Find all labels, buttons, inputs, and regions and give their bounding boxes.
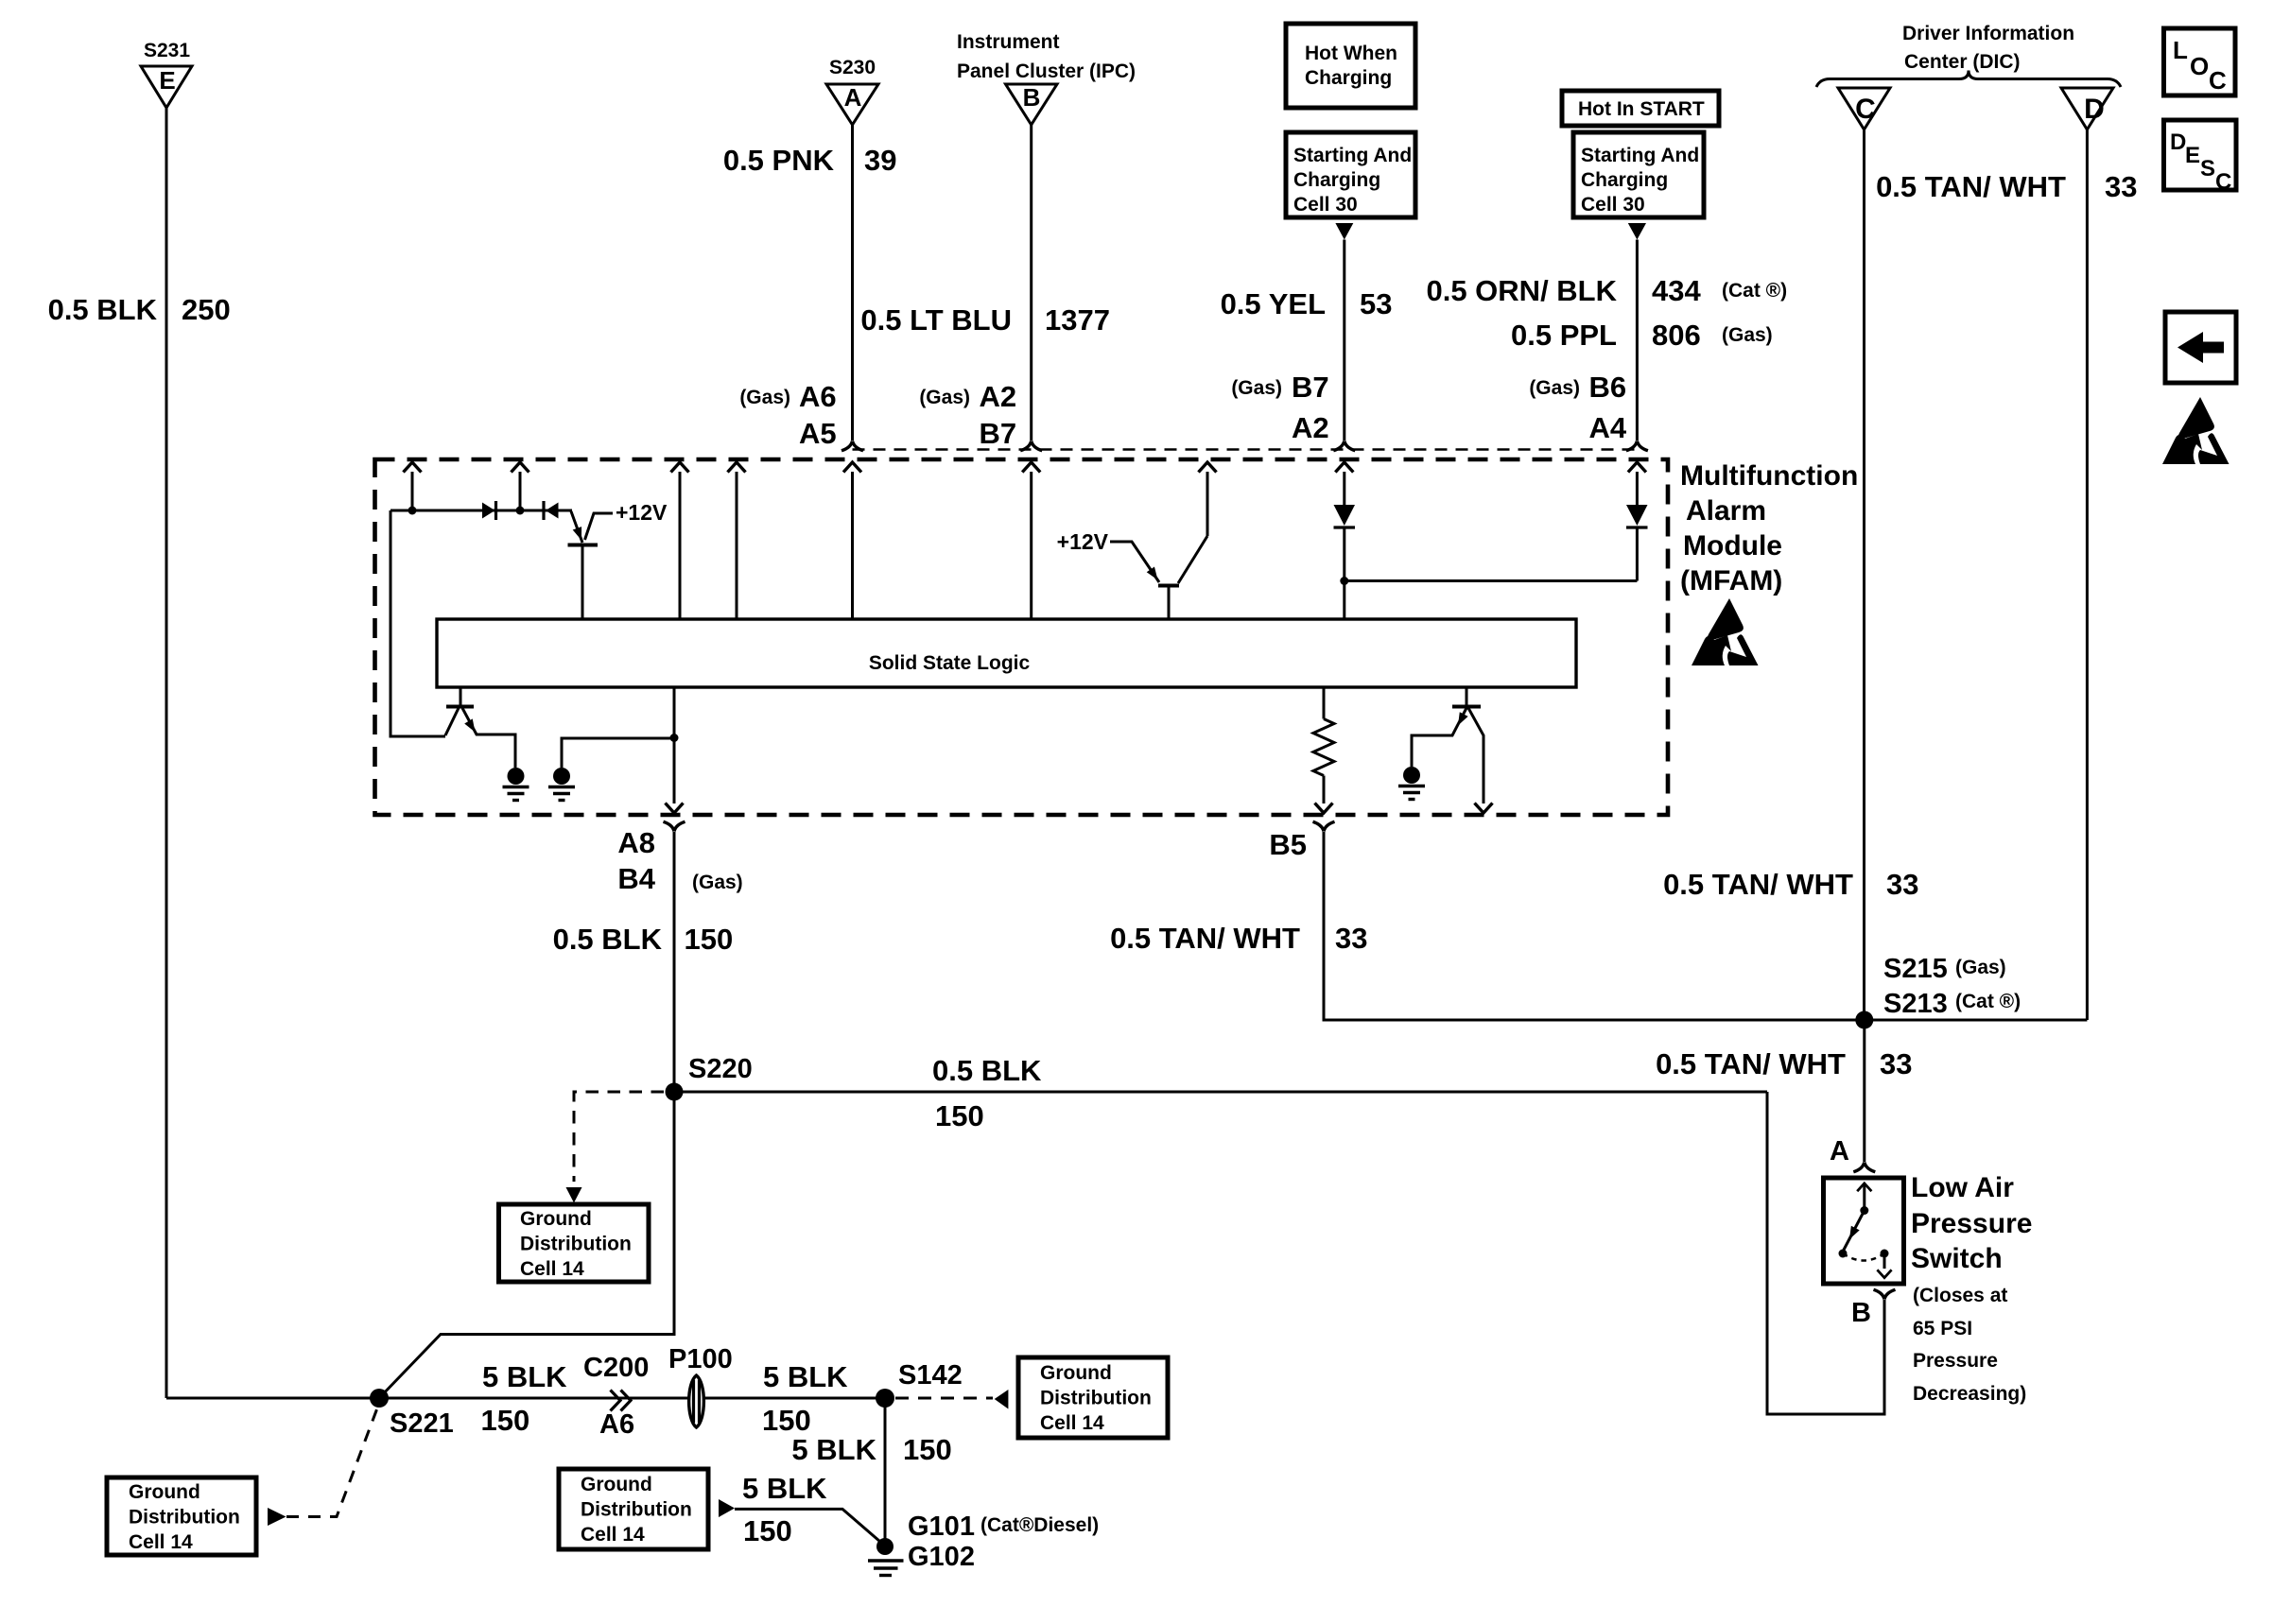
wire A8 output vertical <box>673 686 676 803</box>
wire from arrow x=550 to diode row <box>519 472 522 510</box>
svg-text:5 BLK: 5 BLK <box>763 1360 848 1393</box>
wire E vertical <box>165 108 168 1398</box>
svg-text:Cell 14: Cell 14 <box>520 1258 584 1280</box>
svg-text:0.5 ORN/ BLK: 0.5 ORN/ BLK <box>1426 274 1617 307</box>
svg-text:A: A <box>844 83 862 112</box>
svg-text:Cell 30: Cell 30 <box>1581 194 1645 216</box>
svg-text:S230: S230 <box>829 57 876 78</box>
svg-text:Cell 30: Cell 30 <box>1293 194 1358 216</box>
svg-text:B6: B6 <box>1589 371 1627 404</box>
crosslink wire <box>1345 579 1638 582</box>
svg-text:(Gas): (Gas) <box>1955 957 2006 978</box>
svg-text:0.5 TAN/ WHT: 0.5 TAN/ WHT <box>1110 922 1300 955</box>
box Starting And Charging Cell 30 <box>1286 132 1415 217</box>
svg-text:5 BLK: 5 BLK <box>742 1472 827 1505</box>
wire D TAN/WHT <box>2086 130 2089 1020</box>
svg-text:5 BLK: 5 BLK <box>791 1433 876 1466</box>
svg-text:Multifunction: Multifunction <box>1680 460 1858 492</box>
svg-text:Alarm: Alarm <box>1686 495 1766 527</box>
DESC icon <box>2164 120 2237 190</box>
pin chevron A <box>1853 1163 1875 1172</box>
ground (Q2 emitter) <box>503 768 529 801</box>
input arrow pin A4 <box>1628 462 1646 473</box>
svg-text:Distribution: Distribution <box>129 1507 240 1529</box>
svg-text:0.5 PPL: 0.5 PPL <box>1511 319 1617 352</box>
svg-text:Low Air: Low Air <box>1911 1172 2014 1203</box>
svg-text:0.5 YEL: 0.5 YEL <box>1221 287 1326 320</box>
svg-text:Switch: Switch <box>1911 1243 2003 1274</box>
svg-text:Panel Cluster (IPC): Panel Cluster (IPC) <box>957 60 1136 82</box>
svg-text:Hot In START: Hot In START <box>1578 98 1705 120</box>
svg-text:(Cat ®): (Cat ®) <box>1955 991 2021 1012</box>
input arrow pin A5 <box>843 462 861 473</box>
svg-text:Starting And: Starting And <box>1581 145 1699 166</box>
input arrow at top border x=1277 <box>1199 462 1217 473</box>
wire LT BLU <box>1030 125 1032 441</box>
svg-text:0.5 TAN/ WHT: 0.5 TAN/ WHT <box>1663 868 1853 901</box>
svg-text:A2: A2 <box>1292 411 1329 444</box>
wire TAN/WHT down <box>1324 832 2087 1020</box>
feed arrow <box>1628 223 1646 240</box>
svg-text:D: D <box>2084 94 2105 125</box>
wire 0.5 BLK 150 <box>673 832 676 1092</box>
wire D3 to logic <box>1343 527 1345 619</box>
diode D1 (points right) <box>482 503 495 519</box>
svg-text:C200: C200 <box>583 1353 649 1383</box>
svg-text:Module: Module <box>1683 530 1782 561</box>
svg-text:(Cat ®): (Cat ®) <box>1722 280 1787 302</box>
svg-text:(Cat®Diesel): (Cat®Diesel) <box>980 1514 1099 1536</box>
svg-text:Charging: Charging <box>1293 169 1380 191</box>
output arrow Q4 collector <box>1475 803 1493 814</box>
svg-text:B7: B7 <box>1292 371 1329 404</box>
svg-text:A6: A6 <box>799 380 837 413</box>
svg-text:(Gas): (Gas) <box>919 387 970 408</box>
wire C TAN/WHT <box>1863 130 1865 1020</box>
wire x=779 border to logic <box>736 472 738 619</box>
svg-text:B: B <box>1023 83 1041 112</box>
svg-text:A: A <box>1830 1136 1849 1166</box>
svg-text:Pressure: Pressure <box>1913 1350 1998 1372</box>
wire ORN/PPL <box>1636 240 1639 441</box>
wire YEL <box>1343 240 1345 441</box>
svg-text:A2: A2 <box>980 380 1017 413</box>
svg-text:Ground: Ground <box>581 1474 652 1495</box>
svg-text:O: O <box>2190 52 2209 80</box>
internal contacts <box>1857 1183 1871 1191</box>
ESD symbol top right <box>2162 397 2230 464</box>
node S221 <box>370 1389 389 1408</box>
svg-text:B4: B4 <box>617 862 655 895</box>
connector triangle B <box>1006 84 1058 125</box>
input arrow at top border x=436 <box>404 462 422 473</box>
wire x=719 border to logic <box>679 472 682 619</box>
connector triangle C <box>1838 88 1890 130</box>
svg-text:Charging: Charging <box>1581 169 1668 191</box>
svg-text:C: C <box>2209 66 2227 95</box>
svg-text:Starting And: Starting And <box>1293 145 1412 166</box>
junction node on A8 wire <box>670 734 679 742</box>
svg-text:(Gas): (Gas) <box>692 872 743 893</box>
svg-text:(Gas): (Gas) <box>1231 377 1282 399</box>
svg-text:A6: A6 <box>599 1409 634 1440</box>
wire 0.5 BLK to right <box>674 1091 1767 1094</box>
wire R1 to border <box>1323 776 1326 804</box>
output arrow pin A8 <box>666 803 684 814</box>
svg-text:33: 33 <box>1880 1047 1912 1080</box>
wire PNK <box>851 125 854 441</box>
connector chevron A2 <box>1333 441 1355 451</box>
svg-text:Cell 14: Cell 14 <box>581 1524 645 1546</box>
connector chevron A5 <box>842 441 863 451</box>
wire 5 BLK 150 to ground <box>735 1509 884 1545</box>
diode D2 (points left) <box>542 501 545 520</box>
stub arrow <box>719 1499 735 1517</box>
svg-text:806: 806 <box>1652 319 1701 352</box>
stub arrow <box>268 1508 286 1526</box>
svg-text:(Gas): (Gas) <box>739 387 790 408</box>
svg-text:33: 33 <box>1886 868 1918 901</box>
node S142 <box>876 1389 894 1408</box>
ESD symbol inside label area <box>1692 598 1759 665</box>
box Hot When Charging <box>1286 24 1415 108</box>
wire x=1277 border to Q3 <box>1206 472 1209 536</box>
connector dashed line (thin) <box>853 448 1638 451</box>
junction node A2/A4 link <box>1340 577 1348 585</box>
box Hot In START <box>1562 91 1719 126</box>
svg-text:150: 150 <box>762 1404 811 1437</box>
svg-text:Ground: Ground <box>129 1481 200 1503</box>
svg-text:150: 150 <box>685 923 734 956</box>
box Starting And Charging Cell 30 <box>1573 132 1704 217</box>
MFAM dashed border <box>375 459 1669 815</box>
svg-text:C: C <box>1855 94 1876 125</box>
wire E to S221 to S142 <box>166 1397 885 1400</box>
svg-text:33: 33 <box>1335 922 1367 955</box>
pin chevron A8 <box>664 821 685 831</box>
diode D4 at A4 wire <box>1626 505 1648 526</box>
svg-text:Hot When: Hot When <box>1305 43 1397 64</box>
wire to switch <box>1863 1020 1865 1162</box>
svg-text:G102: G102 <box>908 1542 975 1572</box>
junction node on diode row x=436 <box>408 507 417 515</box>
svg-text:33: 33 <box>2105 170 2137 203</box>
svg-text:B: B <box>1851 1298 1871 1328</box>
connector triangle E <box>141 66 192 108</box>
ground distribution box <box>1018 1357 1168 1438</box>
connector triangle A <box>826 84 878 125</box>
svg-text:+12V: +12V <box>1057 529 1109 554</box>
svg-text:Ground: Ground <box>1040 1362 1112 1384</box>
ground distribution box (middle) <box>559 1469 708 1549</box>
wire Q4 collector to border <box>1468 708 1484 803</box>
junction node <box>1855 1011 1873 1029</box>
svg-text:S142: S142 <box>898 1360 963 1391</box>
svg-text:150: 150 <box>935 1099 984 1132</box>
svg-text:(Gas): (Gas) <box>1529 377 1580 399</box>
svg-text:S220: S220 <box>688 1054 753 1084</box>
dashed link to S221 <box>286 1406 378 1517</box>
svg-text:150: 150 <box>903 1433 952 1466</box>
svg-text:434: 434 <box>1652 274 1701 307</box>
solid state logic box <box>437 619 1576 687</box>
svg-text:Cell 14: Cell 14 <box>129 1531 193 1553</box>
transistor Q2 lower left <box>460 686 462 706</box>
svg-text:0.5 TAN/ WHT: 0.5 TAN/ WHT <box>1876 170 2066 203</box>
svg-text:0.5 PNK: 0.5 PNK <box>723 144 835 177</box>
input arrow at top border x=719 <box>671 462 689 473</box>
diode D3 at A2 wire <box>1334 505 1356 526</box>
connector chevron A4 <box>1626 441 1648 451</box>
output arrow pin B5 <box>1315 803 1333 814</box>
dashed stub to ground distribution <box>574 1092 664 1182</box>
dashed stub to ground distribution <box>895 1397 993 1400</box>
svg-text:53: 53 <box>1360 287 1392 320</box>
svg-text:A4: A4 <box>1589 411 1627 444</box>
connector triangle D <box>2061 88 2113 130</box>
svg-text:(MFAM): (MFAM) <box>1680 565 1782 596</box>
svg-text:S: S <box>2200 156 2215 181</box>
svg-text:A5: A5 <box>799 417 837 450</box>
svg-text:Ground: Ground <box>520 1208 592 1230</box>
svg-text:0.5 BLK: 0.5 BLK <box>932 1054 1042 1087</box>
ground distribution box <box>499 1204 650 1282</box>
svg-text:0.5 BLK: 0.5 BLK <box>48 293 158 326</box>
svg-text:E: E <box>159 66 175 95</box>
svg-text:Distribution: Distribution <box>520 1234 632 1255</box>
input arrow at top border x=550 <box>512 462 529 473</box>
svg-text:Decreasing): Decreasing) <box>1913 1383 2026 1405</box>
switch box <box>1824 1178 1904 1284</box>
wire S142 down to ground <box>884 1398 887 1541</box>
svg-text:0.5 BLK: 0.5 BLK <box>553 923 663 956</box>
svg-text:5 BLK: 5 BLK <box>482 1360 567 1393</box>
input arrow at top border x=779 <box>728 462 746 473</box>
svg-text:S215: S215 <box>1883 954 1948 984</box>
wire from arrow x=436 to diode row <box>411 472 414 510</box>
resistor R1 <box>1323 687 1326 719</box>
svg-text:E: E <box>2185 143 2200 168</box>
ground (Q4 emitter) <box>1398 767 1425 800</box>
back arrow icon <box>2165 312 2236 383</box>
svg-text:Solid State Logic: Solid State Logic <box>869 652 1031 674</box>
svg-text:39: 39 <box>864 144 896 177</box>
wire A4 input to diode D4 <box>1636 472 1639 505</box>
svg-text:B5: B5 <box>1269 828 1307 861</box>
wire A2 input to diode D3 <box>1343 472 1345 505</box>
svg-text:Distribution: Distribution <box>581 1499 692 1521</box>
wire B7 input to logic <box>1030 472 1032 619</box>
svg-text:C: C <box>2215 169 2231 195</box>
svg-text:S221: S221 <box>390 1408 454 1439</box>
wire A5 input to logic <box>851 472 854 619</box>
svg-text:Center (DIC): Center (DIC) <box>1904 51 2021 73</box>
svg-text:B7: B7 <box>980 417 1017 450</box>
wire diode row horizontal <box>390 510 572 512</box>
brace <box>1816 71 2121 88</box>
svg-text:0.5 TAN/ WHT: 0.5 TAN/ WHT <box>1656 1047 1846 1080</box>
svg-text:S231: S231 <box>144 40 190 61</box>
svg-text:1377: 1377 <box>1045 303 1110 337</box>
svg-text:250: 250 <box>182 293 231 326</box>
svg-text:S213: S213 <box>1883 989 1948 1019</box>
input arrow pin B7 <box>1022 462 1040 473</box>
svg-text:(Closes at: (Closes at <box>1913 1285 2007 1306</box>
svg-text:A8: A8 <box>617 826 655 859</box>
svg-text:L: L <box>2173 36 2188 64</box>
transistor Q1 top left <box>571 511 582 543</box>
link wire S221 to S220 <box>379 1092 674 1398</box>
svg-text:0.5 LT BLU: 0.5 LT BLU <box>860 303 1012 337</box>
pin chevron B <box>1874 1289 1896 1299</box>
svg-text:Charging: Charging <box>1305 67 1392 89</box>
LOC icon <box>2164 28 2236 95</box>
svg-text:Cell 14: Cell 14 <box>1040 1412 1104 1434</box>
svg-text:G101: G101 <box>908 1512 975 1542</box>
svg-text:D: D <box>2170 130 2186 155</box>
junction node on diode row x=550 <box>516 507 525 515</box>
input arrow pin A2 <box>1335 462 1353 473</box>
feed arrow <box>1335 223 1353 240</box>
svg-text:65 PSI: 65 PSI <box>1913 1318 1972 1339</box>
svg-text:150: 150 <box>481 1404 530 1437</box>
ground (logic output) <box>548 768 575 801</box>
connector chevron B7 <box>1020 441 1042 451</box>
wire from B <box>1767 1092 1884 1414</box>
svg-text:Driver Information: Driver Information <box>1902 23 2074 44</box>
svg-text:Pressure: Pressure <box>1911 1208 2032 1239</box>
svg-text:150: 150 <box>743 1514 792 1547</box>
svg-text:Instrument: Instrument <box>957 31 1060 53</box>
svg-text:Distribution: Distribution <box>1040 1388 1152 1409</box>
transistor Q4 lower right <box>1466 687 1468 706</box>
svg-text:P100: P100 <box>668 1344 733 1374</box>
svg-text:+12V: +12V <box>616 500 668 525</box>
svg-text:(Gas): (Gas) <box>1722 324 1773 346</box>
left loop wire <box>390 510 445 736</box>
wire ground to A8 node <box>562 738 674 768</box>
